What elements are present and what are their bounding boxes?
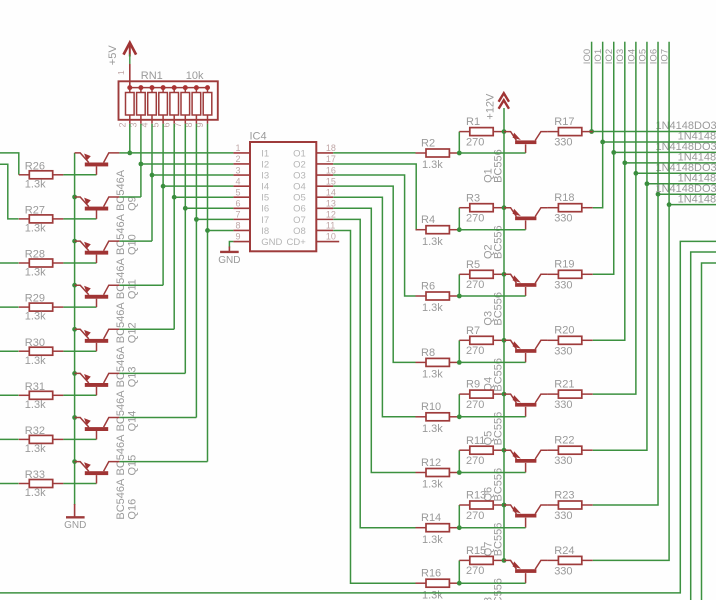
junction +12V rail row 5 bbox=[502, 392, 507, 397]
IC4 pin 7 (I7) bbox=[233, 218, 250, 220]
svg-text:BC546A: BC546A bbox=[115, 213, 127, 255]
wire input to R27 bbox=[0, 164, 19, 219]
svg-text:R12: R12 bbox=[421, 457, 441, 469]
transistor Q14 BC546A bbox=[75, 373, 120, 395]
wire R28 to base Q11 bbox=[63, 262, 96, 264]
svg-text:BC546A: BC546A bbox=[115, 478, 127, 520]
svg-text:GND: GND bbox=[218, 255, 240, 266]
svg-text:6: 6 bbox=[235, 199, 240, 209]
svg-text:O8: O8 bbox=[293, 226, 306, 237]
ground symbol left bus bbox=[66, 504, 85, 517]
wire diode row 0 to D1 bbox=[592, 131, 716, 133]
svg-text:R17: R17 bbox=[554, 116, 574, 128]
wire base node to R5 bbox=[458, 274, 460, 296]
resistor R3 270 bbox=[459, 204, 504, 212]
svg-text:1.3k: 1.3k bbox=[422, 589, 443, 600]
junction +12V rail row 4 bbox=[502, 338, 507, 343]
svg-text:1.3k: 1.3k bbox=[25, 355, 46, 367]
svg-text:IO2: IO2 bbox=[604, 49, 615, 64]
RN1 element 8 bbox=[203, 88, 212, 124]
svg-text:IO3: IO3 bbox=[615, 49, 626, 64]
svg-text:R29: R29 bbox=[25, 293, 45, 305]
junction emitter Q14 bbox=[72, 371, 77, 376]
junction node I1 bbox=[127, 151, 132, 156]
svg-text:3: 3 bbox=[235, 165, 240, 175]
svg-text:Q9: Q9 bbox=[127, 196, 139, 211]
svg-text:13: 13 bbox=[326, 199, 336, 209]
junction RN1 bus pin 7 bbox=[183, 85, 188, 90]
svg-text:R23: R23 bbox=[554, 489, 574, 501]
wire bus row C bbox=[702, 263, 716, 600]
wire collector Q10 bbox=[119, 196, 140, 198]
wire bus row B bbox=[691, 252, 716, 600]
svg-text:R28: R28 bbox=[25, 249, 45, 261]
junction RN1 bus pin 3 bbox=[138, 85, 143, 90]
wire RN1 pin 8 to node I7 bbox=[195, 124, 197, 418]
wire bus row A bbox=[0, 241, 716, 593]
resistor R32 1.3k bbox=[19, 435, 64, 443]
svg-text:2: 2 bbox=[117, 122, 127, 127]
svg-text:BC546A: BC546A bbox=[115, 390, 127, 432]
wire R23 to diode row 6 bbox=[593, 194, 658, 505]
wire base Q3 bbox=[459, 295, 525, 297]
IC4 pin 15 (O4) bbox=[316, 185, 333, 187]
junction node I5 bbox=[172, 195, 177, 200]
wire IC4 O6 to R12 bbox=[333, 208, 415, 472]
junction emitter Q16 bbox=[72, 459, 77, 464]
wire diode row 5 to D6 bbox=[647, 183, 716, 185]
svg-text:GND: GND bbox=[261, 237, 282, 248]
IC4 pin 5 (I5) bbox=[233, 196, 250, 198]
svg-text:O2: O2 bbox=[293, 159, 306, 170]
svg-text:R19: R19 bbox=[554, 259, 574, 271]
svg-text:1.3k: 1.3k bbox=[25, 311, 46, 323]
resistor R16 1.3k bbox=[416, 579, 460, 587]
svg-text:10k: 10k bbox=[186, 70, 204, 82]
svg-text:Q15: Q15 bbox=[127, 455, 139, 476]
svg-text:Q14: Q14 bbox=[127, 411, 139, 432]
svg-text:R20: R20 bbox=[554, 325, 574, 337]
IC4 pin 6 (I6) bbox=[233, 207, 250, 209]
wire net IO0 vertical bbox=[591, 42, 593, 132]
IC4 pin 11 (O8) bbox=[316, 229, 333, 231]
resistor R31 1.3k bbox=[19, 391, 64, 399]
junction base node Q1 bbox=[457, 151, 462, 156]
wire net IO6 vertical bbox=[657, 42, 659, 195]
svg-text:2: 2 bbox=[235, 154, 240, 164]
svg-text:11: 11 bbox=[326, 221, 335, 231]
RN1 element 1 bbox=[126, 88, 135, 124]
wire RN1 pin 2 to node I1 bbox=[129, 124, 131, 153]
resistor R21 330 bbox=[547, 390, 592, 398]
junction IO7 diode row bbox=[667, 202, 672, 207]
wire RN1 pin 9 to node I8 bbox=[207, 124, 209, 462]
wire R29 to base Q12 bbox=[63, 306, 96, 308]
wire R26 to base Q9 bbox=[63, 174, 96, 176]
svg-text:1.3k: 1.3k bbox=[25, 399, 46, 411]
svg-text:R4: R4 bbox=[421, 214, 435, 226]
junction RN1 bus pin 6 bbox=[172, 85, 177, 90]
wire node I1 to IC4 pin 1 bbox=[130, 152, 234, 154]
resistor R20 330 bbox=[547, 336, 592, 344]
junction IO3 diode row bbox=[622, 160, 627, 165]
resistor R12 1.3k bbox=[416, 469, 460, 477]
wire base Q8 bbox=[459, 582, 525, 584]
wire R21 to diode row 4 bbox=[593, 173, 636, 394]
svg-text:R15: R15 bbox=[466, 545, 486, 557]
svg-text:BC546A: BC546A bbox=[115, 169, 127, 211]
svg-text:330: 330 bbox=[554, 213, 572, 225]
wire node I2 to IC4 pin 2 bbox=[141, 163, 234, 165]
svg-text:R2: R2 bbox=[421, 137, 435, 149]
transistor Q13 BC546A bbox=[75, 329, 120, 351]
svg-text:CD+: CD+ bbox=[287, 237, 307, 248]
resistor R23 330 bbox=[547, 501, 592, 509]
junction emitter Q13 bbox=[72, 327, 77, 332]
svg-text:I3: I3 bbox=[261, 170, 269, 181]
transistor Q1 BC556 bbox=[504, 132, 547, 153]
svg-text:8: 8 bbox=[235, 221, 240, 231]
IC4 pin 17 (O2) bbox=[316, 163, 333, 165]
junction IO6 diode row bbox=[656, 192, 661, 197]
resistor R10 1.3k bbox=[416, 413, 460, 421]
svg-text:IC4: IC4 bbox=[250, 130, 267, 142]
svg-text:330: 330 bbox=[554, 345, 572, 357]
wire IC4 O1 to R2 bbox=[333, 152, 415, 154]
RN1 element 6 bbox=[181, 88, 190, 124]
resistor R6 1.3k bbox=[416, 292, 460, 300]
junction RN1 bus pin 9 bbox=[205, 85, 210, 90]
wire input to R29 bbox=[0, 306, 19, 308]
RN1 element 7 bbox=[192, 88, 201, 124]
wire R20 to diode row 3 bbox=[593, 163, 625, 340]
wire base Q2 bbox=[459, 229, 525, 231]
wire IC4 O2 to R4 bbox=[333, 164, 416, 230]
transistor Q4 BC556 bbox=[504, 340, 547, 362]
resistor R2 1.3k bbox=[416, 149, 460, 157]
transistor Q3 BC556 bbox=[504, 274, 547, 296]
op-amp/driver IC4 box bbox=[250, 142, 316, 251]
svg-text:I1: I1 bbox=[261, 148, 269, 159]
wire net IO5 vertical bbox=[646, 42, 648, 184]
resistor R4 1.3k bbox=[416, 226, 460, 234]
wire R19 to diode row 2 bbox=[593, 152, 614, 274]
svg-text:O5: O5 bbox=[293, 193, 306, 204]
wire R31 to base Q14 bbox=[63, 394, 96, 396]
junction base node Q7 bbox=[457, 525, 462, 530]
wire R32 to base Q15 bbox=[63, 438, 96, 440]
svg-text:1: 1 bbox=[235, 143, 240, 153]
wire node I7 to IC4 pin 7 bbox=[196, 218, 233, 220]
svg-text:R24: R24 bbox=[554, 545, 574, 557]
junction +12V rail row 6 bbox=[502, 448, 507, 453]
junction base node Q5 bbox=[457, 414, 462, 419]
svg-text:Q11: Q11 bbox=[127, 279, 139, 299]
svg-text:+12V: +12V bbox=[485, 93, 497, 120]
wire RN1 pin 7 to node I6 bbox=[184, 124, 186, 374]
resistor R9 270 bbox=[459, 390, 504, 398]
junction RN1 bus pin 2 bbox=[127, 85, 132, 90]
transistor Q6 BC556 bbox=[504, 450, 547, 472]
svg-text:BC546A: BC546A bbox=[115, 346, 127, 388]
svg-text:IO7: IO7 bbox=[659, 49, 670, 64]
svg-text:R21: R21 bbox=[554, 379, 574, 391]
svg-text:O1: O1 bbox=[293, 148, 306, 159]
junction IO4 diode row bbox=[633, 171, 638, 176]
transistor Q16 BC546A bbox=[75, 462, 120, 484]
wire node I6 to IC4 pin 6 bbox=[185, 207, 233, 209]
wire diode row 7 to D8 bbox=[669, 204, 716, 206]
svg-text:330: 330 bbox=[554, 279, 572, 291]
svg-text:R33: R33 bbox=[25, 469, 45, 481]
svg-text:R7: R7 bbox=[466, 325, 480, 337]
wire collector Q16 bbox=[119, 461, 207, 463]
transistor Q11 BC546A bbox=[75, 241, 120, 263]
wire base Q4 bbox=[459, 361, 525, 363]
wire net IO2 vertical bbox=[613, 42, 615, 153]
junction IO2 diode row bbox=[611, 150, 616, 155]
wire IC4 O8 to R16 bbox=[333, 230, 415, 583]
wire node I8 to IC4 pin 8 bbox=[208, 229, 234, 231]
wire diode row 1 to D2 bbox=[603, 141, 716, 143]
junction +12V rail row 2 bbox=[502, 205, 507, 210]
wire base node to R1 bbox=[458, 132, 460, 153]
transistor Q5 BC556 bbox=[504, 394, 547, 417]
junction emitter Q12 bbox=[72, 283, 77, 288]
svg-text:R5: R5 bbox=[466, 259, 480, 271]
svg-text:330: 330 bbox=[554, 510, 572, 522]
svg-text:Q10: Q10 bbox=[127, 234, 139, 255]
junction node I2 bbox=[139, 162, 144, 167]
ground symbol IC4 bbox=[220, 247, 239, 252]
supply +5V symbol bbox=[124, 43, 137, 57]
RN1 element 2 bbox=[137, 88, 146, 124]
svg-text:I8: I8 bbox=[261, 226, 269, 237]
junction base node Q3 bbox=[457, 294, 462, 299]
IC4 pin 1 (I1) bbox=[233, 152, 250, 154]
svg-text:I5: I5 bbox=[261, 193, 269, 204]
IC4 pin 3 (I3) bbox=[233, 174, 250, 176]
svg-text:R27: R27 bbox=[25, 205, 45, 217]
IC4 pin 16 (O3) bbox=[316, 174, 333, 176]
junction +12V rail row 8 bbox=[502, 558, 507, 563]
svg-text:15: 15 bbox=[326, 176, 336, 186]
resistor R8 1.3k bbox=[416, 358, 460, 366]
svg-text:IO0: IO0 bbox=[582, 49, 593, 64]
IC4 pin 4 (I4) bbox=[233, 185, 250, 187]
wire RN1 pin 4 to node I3 bbox=[151, 124, 153, 241]
svg-text:270: 270 bbox=[466, 455, 484, 467]
junction +12V rail row 3 bbox=[502, 272, 507, 277]
svg-text:R22: R22 bbox=[554, 435, 574, 447]
resistor R24 330 bbox=[547, 556, 592, 564]
resistor R33 1.3k bbox=[19, 480, 64, 488]
svg-text:1.3k: 1.3k bbox=[422, 159, 443, 171]
svg-text:I2: I2 bbox=[261, 159, 269, 170]
wire IC4 pin 9 to ground bbox=[229, 242, 233, 248]
svg-text:12: 12 bbox=[326, 210, 336, 220]
svg-text:270: 270 bbox=[466, 136, 484, 148]
svg-text:R1: R1 bbox=[466, 116, 480, 128]
IC4 pin 10 (CD+) bbox=[316, 241, 339, 243]
wire input to R28 bbox=[0, 262, 19, 264]
svg-text:330: 330 bbox=[554, 399, 572, 411]
junction node I4 bbox=[161, 184, 166, 189]
transistor Q10 BC546A bbox=[75, 197, 120, 219]
wire base Q1 bbox=[459, 152, 525, 154]
resistor R11 270 bbox=[459, 446, 504, 454]
transistor Q9 BC546A bbox=[75, 153, 120, 175]
svg-text:BC556: BC556 bbox=[493, 292, 505, 326]
wire collector Q9 bbox=[119, 152, 129, 154]
junction IO5 diode row bbox=[645, 181, 650, 186]
svg-text:7: 7 bbox=[235, 210, 240, 220]
wire input to R31 bbox=[0, 394, 19, 396]
svg-text:IO6: IO6 bbox=[648, 49, 659, 64]
junction RN1 bus pin 4 bbox=[150, 85, 155, 90]
svg-text:Q13: Q13 bbox=[127, 367, 139, 388]
IC4 pin 14 (O5) bbox=[316, 196, 333, 198]
svg-text:1.3k: 1.3k bbox=[422, 479, 443, 491]
svg-text:IO4: IO4 bbox=[626, 49, 637, 64]
wire base node to R7 bbox=[458, 340, 460, 362]
svg-text:R31: R31 bbox=[25, 381, 45, 393]
svg-text:I4: I4 bbox=[261, 182, 269, 193]
svg-text:R9: R9 bbox=[466, 379, 480, 391]
resistor R28 1.3k bbox=[19, 259, 64, 267]
svg-text:16: 16 bbox=[326, 165, 336, 175]
resistor R18 330 bbox=[547, 204, 592, 212]
wire net IO3 vertical bbox=[624, 42, 626, 163]
wire RN1 pin 6 to node I5 bbox=[173, 124, 175, 329]
svg-text:330: 330 bbox=[554, 455, 572, 467]
junction RN1 bus pin 5 bbox=[161, 85, 166, 90]
wire collector Q14 bbox=[119, 372, 185, 374]
svg-text:R10: R10 bbox=[421, 401, 441, 413]
wire base node to R3 bbox=[458, 208, 460, 230]
svg-text:270: 270 bbox=[466, 345, 484, 357]
resistor R15 270 bbox=[459, 556, 504, 564]
junction emitter Q11 bbox=[72, 239, 77, 244]
svg-text:1.3k: 1.3k bbox=[422, 534, 443, 546]
wire RN1 pin 5 to node I4 bbox=[162, 124, 164, 285]
svg-text:IO1: IO1 bbox=[593, 49, 604, 64]
wire input to R33 bbox=[0, 483, 19, 485]
IC4 pin 9 (GND) bbox=[233, 241, 250, 243]
RN1 element 3 bbox=[148, 88, 157, 124]
wire base Q5 bbox=[459, 416, 525, 418]
IC4 pin 12 (O7) bbox=[316, 218, 333, 220]
svg-text:1.3k: 1.3k bbox=[25, 223, 46, 235]
svg-text:I6: I6 bbox=[261, 204, 269, 215]
svg-text:1.3k: 1.3k bbox=[25, 487, 46, 499]
wire diode row 3 to D4 bbox=[625, 162, 716, 164]
wire R33 to base Q16 bbox=[63, 483, 96, 485]
svg-text:O4: O4 bbox=[293, 182, 306, 193]
junction base node Q8 bbox=[457, 581, 462, 586]
wire collector Q13 bbox=[119, 328, 174, 330]
resistor R14 1.3k bbox=[416, 524, 460, 532]
svg-text:1: 1 bbox=[116, 70, 126, 75]
svg-text:17: 17 bbox=[326, 154, 336, 164]
svg-text:RN1: RN1 bbox=[141, 70, 163, 82]
resistor R22 330 bbox=[547, 446, 592, 454]
wire R22 to diode row 5 bbox=[593, 184, 647, 450]
wire emitter bus to GND bbox=[74, 153, 76, 505]
transistor Q8 BC556 bbox=[504, 560, 547, 583]
wire +5V to RN1 pin 1 bbox=[129, 54, 131, 88]
resistor network RN1 box bbox=[119, 81, 218, 120]
RN1 internal common bus bbox=[130, 87, 208, 89]
svg-text:R16: R16 bbox=[421, 568, 441, 580]
svg-text:R11: R11 bbox=[466, 435, 485, 447]
wire input to R26 bbox=[0, 153, 19, 175]
wire net IO1 vertical bbox=[602, 42, 604, 142]
svg-text:BC546A: BC546A bbox=[115, 257, 127, 299]
IC4 pin 2 (I2) bbox=[233, 163, 250, 165]
junction base node Q2 bbox=[457, 227, 462, 232]
svg-text:9: 9 bbox=[235, 232, 240, 242]
IC4 pin 18 (O1) bbox=[316, 152, 333, 154]
svg-text:BC556: BC556 bbox=[493, 578, 505, 600]
svg-text:270: 270 bbox=[466, 213, 484, 225]
svg-text:R13: R13 bbox=[466, 490, 486, 502]
svg-text:IO5: IO5 bbox=[637, 49, 648, 64]
junction IO0 diode row bbox=[589, 129, 594, 134]
wire diode row 2 to D3 bbox=[614, 151, 716, 153]
wire base Q6 bbox=[459, 472, 525, 474]
svg-text:1.3k: 1.3k bbox=[422, 369, 443, 381]
svg-text:R14: R14 bbox=[421, 512, 441, 524]
wire R18 to diode row 1 bbox=[593, 142, 603, 208]
wire node I3 to IC4 pin 3 bbox=[152, 174, 233, 176]
wire IC4 O4 to R8 bbox=[333, 186, 415, 362]
wire input to R30 bbox=[0, 350, 19, 352]
resistor R29 1.3k bbox=[19, 303, 64, 311]
svg-text:14: 14 bbox=[326, 187, 336, 197]
junction emitter Q10 bbox=[72, 195, 77, 200]
wire IC4 O5 to R10 bbox=[333, 197, 415, 417]
svg-text:5: 5 bbox=[235, 187, 240, 197]
wire diode row 4 to D5 bbox=[636, 172, 716, 174]
svg-text:R6: R6 bbox=[421, 280, 435, 292]
resistor R30 1.3k bbox=[19, 347, 64, 355]
wire IC4 O7 to R14 bbox=[333, 219, 415, 527]
wire R24 to diode row 7 bbox=[593, 205, 669, 561]
wire base node to R13 bbox=[458, 505, 460, 528]
junction RN1 bus pin 8 bbox=[194, 85, 199, 90]
wire net IO7 vertical bbox=[668, 42, 670, 205]
wire diode row 6 to D7 bbox=[658, 193, 716, 195]
junction base node Q4 bbox=[457, 360, 462, 365]
svg-text:O7: O7 bbox=[293, 215, 306, 226]
supply +12V symbol bbox=[499, 93, 509, 109]
wire RN1 pin 3 to node I2 bbox=[140, 124, 142, 197]
resistor R27 1.3k bbox=[19, 215, 64, 223]
svg-text:1N4148DO35: 1N4148DO35 bbox=[678, 193, 716, 205]
svg-text:1.3k: 1.3k bbox=[25, 443, 46, 455]
svg-text:18: 18 bbox=[326, 143, 336, 153]
resistor R17 330 bbox=[547, 128, 592, 136]
svg-text:BC556: BC556 bbox=[493, 149, 505, 183]
junction node I3 bbox=[150, 173, 155, 178]
svg-text:1.3k: 1.3k bbox=[422, 302, 443, 314]
wire node I4 to IC4 pin 4 bbox=[163, 185, 233, 187]
wire collector Q15 bbox=[119, 417, 196, 419]
resistor R13 270 bbox=[459, 501, 504, 509]
RN1 element 5 bbox=[170, 88, 179, 124]
transistor Q2 BC556 bbox=[504, 208, 547, 230]
